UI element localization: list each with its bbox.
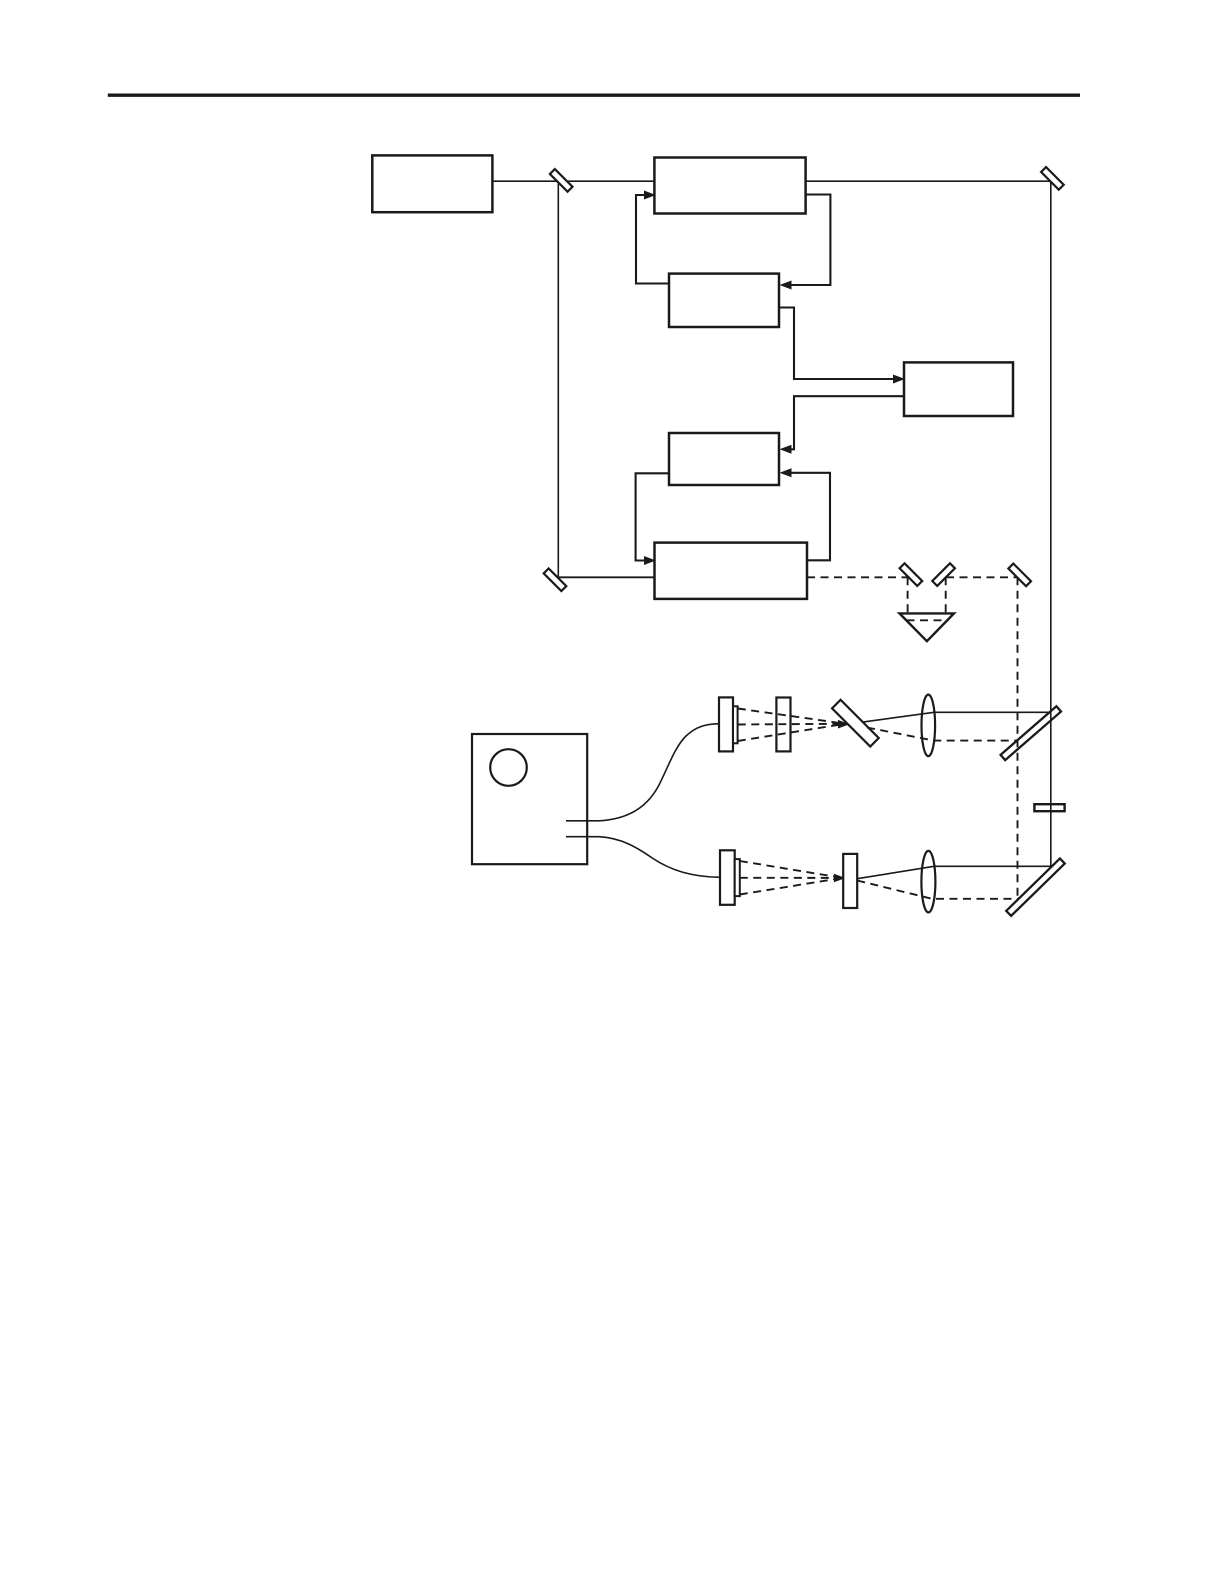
dashed cone lower bottom ray <box>740 879 837 895</box>
box B4 <box>904 362 1013 416</box>
collimator 2 body <box>720 850 735 905</box>
mirror A <box>900 563 923 586</box>
wire beam M2 down to ML <box>1050 181 1052 866</box>
wire beam M1 down to M6 <box>557 181 559 577</box>
box B6 <box>655 543 808 599</box>
arrow into B5 lower <box>780 468 792 477</box>
dashed beam B down to prism <box>945 577 947 619</box>
mirror M2 top right <box>1041 167 1064 190</box>
attenuator on vertical beam <box>1034 804 1064 811</box>
mirror ML lower 45deg <box>1006 859 1065 916</box>
waveplate 1 <box>776 698 790 752</box>
wire feedback B5 to B6 <box>636 473 669 560</box>
dashed beam waveplate2 to mirror ML <box>857 881 1020 899</box>
mirror M1 <box>550 169 573 192</box>
solid beam plate P1 to mirror MU <box>862 712 1051 722</box>
fiber upper <box>566 724 720 821</box>
box B3 <box>669 274 779 327</box>
wire beam M6 to B6 <box>558 576 654 578</box>
wire beam B2 to M2 <box>806 180 1051 182</box>
collimator 1 body <box>719 697 733 751</box>
dashed beam B to C <box>946 576 1017 578</box>
dashed cone upper bottom ray <box>738 725 840 741</box>
mirror B <box>932 563 955 586</box>
box B2 <box>654 158 805 214</box>
waveplate 2 <box>843 854 857 908</box>
dashed beam B6 to mirror A <box>807 576 909 578</box>
mirror MU upper 45deg <box>1001 706 1061 760</box>
arrow into B6 <box>644 556 656 565</box>
lens L2 <box>921 851 935 913</box>
spectrometer box <box>472 734 587 864</box>
arrow at plate P1 <box>838 720 850 729</box>
box B1 laser <box>372 155 492 212</box>
wire B3 to B4 <box>779 308 894 380</box>
dashed cone upper mid ray <box>738 723 840 726</box>
collimator 1 tip <box>733 706 738 743</box>
arrow into B4 <box>893 375 905 384</box>
dashed beam A down to prism <box>907 577 909 612</box>
box B5 <box>669 433 779 485</box>
top horizontal rule <box>108 93 1080 96</box>
dashed beam inside prism <box>907 619 948 621</box>
dashed cone lower mid ray <box>740 877 837 879</box>
collimator 2 tip <box>735 859 740 896</box>
mirror M6 bottom left <box>544 568 567 591</box>
arrow at waveplate 2 <box>834 874 846 883</box>
wire feedback B3 to B2 <box>636 195 669 284</box>
arrow into B2 <box>644 191 656 200</box>
tilted plate P1 <box>832 700 879 747</box>
arrow into B3 <box>780 281 792 290</box>
dashed cone upper top ray <box>738 709 840 724</box>
arrow into B5 upper <box>780 445 792 454</box>
wire loop B6 to B5 <box>789 473 830 561</box>
fiber lower <box>566 837 720 878</box>
mirror C <box>1008 564 1031 587</box>
wire B4 to B5 <box>789 396 904 449</box>
lens L1 <box>922 695 936 757</box>
wire beam B1 to B2 <box>492 180 654 182</box>
dashed beam plate P1 to dashed vertical <box>867 728 1019 741</box>
prism retroreflector <box>900 613 955 641</box>
circle window <box>490 749 527 786</box>
dashed beam C down to ML <box>1017 577 1019 899</box>
dashed cone lower top ray <box>740 861 837 877</box>
wire loop B2 to B3 <box>789 195 830 286</box>
solid beam waveplate2 to mirror ML <box>857 866 1051 878</box>
